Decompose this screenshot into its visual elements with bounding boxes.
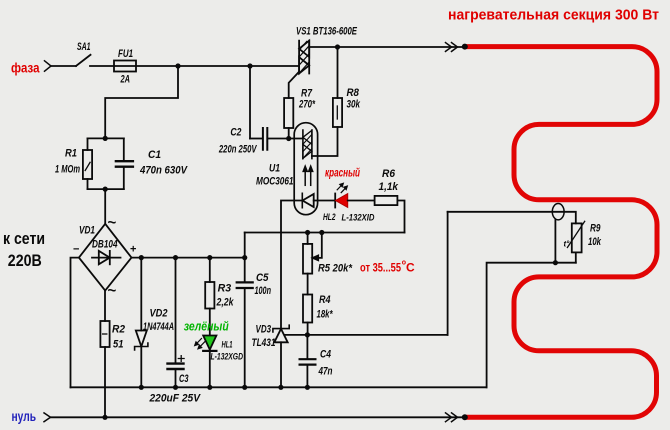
- optocoupler U1 light arrows: [303, 166, 313, 185]
- capacitor C4: [300, 335, 316, 387]
- svg-text:R1: R1: [65, 148, 77, 160]
- zener diode VD2: [135, 258, 148, 388]
- svg-text:220В: 220В: [8, 252, 42, 270]
- wire sensor top riser: [447, 212, 449, 335]
- resistor R6: [375, 196, 405, 233]
- svg-text:C5: C5: [256, 272, 269, 284]
- thermistor R9: [567, 221, 584, 262]
- node heater terminal top chevrons: [446, 43, 458, 52]
- svg-text:нуль: нуль: [12, 408, 37, 424]
- node heater terminal bottom chevrons: [446, 413, 458, 422]
- svg-text:нагревательная секция 300 Вт: нагревательная секция 300 Вт: [448, 7, 659, 24]
- wire bridge minus to ground rail: [71, 258, 79, 388]
- wire phase input to switch: [51, 65, 76, 67]
- node R1C1 bottom: [88, 189, 124, 224]
- svg-text:VD3: VD3: [256, 324, 272, 336]
- svg-text:100n: 100n: [255, 285, 272, 297]
- optocoupler U1 LED: [302, 193, 335, 207]
- svg-text:+: +: [130, 244, 136, 256]
- resistor R2: [100, 321, 109, 417]
- svg-text:1,1k: 1,1k: [379, 181, 399, 193]
- svg-text:2,2k: 2,2k: [216, 297, 234, 309]
- LED HL1 green: [203, 336, 216, 388]
- wire opto LED to TL431: [281, 201, 302, 329]
- svg-text:t°: t°: [564, 240, 571, 249]
- svg-text:2A: 2A: [120, 74, 130, 86]
- svg-text:фаза: фаза: [11, 60, 40, 76]
- svg-text:47n: 47n: [318, 366, 333, 378]
- svg-text:C3: C3: [179, 373, 189, 385]
- LED HL2 emission arrows: [337, 183, 347, 192]
- resistor R1: [83, 138, 92, 189]
- svg-text:C4: C4: [320, 349, 331, 361]
- svg-text:к сети: к сети: [3, 230, 45, 248]
- svg-text:VD1: VD1: [79, 225, 95, 237]
- resistor R8: [312, 47, 342, 156]
- svg-text:VS1 BT136-600E: VS1 BT136-600E: [296, 26, 357, 38]
- wire switch to fuse: [90, 65, 299, 67]
- svg-text:MOC3061: MOC3061: [256, 176, 294, 188]
- svg-text:зелёный: зелёный: [184, 320, 229, 334]
- switch SA1: [76, 55, 91, 66]
- svg-text:51: 51: [113, 339, 124, 351]
- svg-text:1N4744A: 1N4744A: [143, 321, 174, 333]
- svg-text:HL1: HL1: [222, 340, 233, 351]
- svg-text:R8: R8: [347, 87, 360, 99]
- potentiometer R5: [303, 233, 312, 295]
- svg-text:С: С: [406, 261, 415, 275]
- svg-text:270*: 270*: [298, 99, 315, 111]
- node нуль input terminal: [44, 413, 51, 422]
- svg-text:L-132XGD: L-132XGD: [211, 352, 244, 363]
- svg-text:VD2: VD2: [150, 308, 168, 320]
- svg-text:L-132XID: L-132XID: [342, 213, 375, 224]
- resistor R3: [205, 258, 214, 336]
- node фаза input terminal: [45, 61, 52, 71]
- triac VS1: [299, 41, 309, 74]
- svg-text:SA1: SA1: [77, 41, 91, 53]
- svg-text:R4: R4: [319, 294, 331, 306]
- wire triac output: [309, 46, 462, 48]
- svg-text:R3: R3: [218, 283, 232, 295]
- svg-text:220uF 25V: 220uF 25V: [149, 393, 202, 405]
- svg-text:DB104: DB104: [92, 239, 118, 251]
- node R1C1 top: [88, 137, 124, 139]
- fuse FU1: [114, 61, 136, 72]
- capacitor C3 polarized: [168, 258, 185, 388]
- svg-text:TL431: TL431: [252, 337, 276, 349]
- ground rail: [71, 386, 487, 388]
- LED HL1 emission arrows: [195, 339, 205, 349]
- svg-text:HL2: HL2: [323, 212, 336, 223]
- LED HL2 red: [335, 194, 374, 208]
- svg-text:R5 20k*: R5 20k*: [318, 263, 353, 275]
- terminal grommet ellipse: [552, 204, 564, 263]
- svg-text:C2: C2: [230, 127, 241, 139]
- svg-text:U1: U1: [269, 163, 280, 175]
- bridge rectifier VD1: [79, 224, 132, 291]
- wire jog from phase line down to R1C1: [105, 66, 178, 138]
- wire neutral: [51, 416, 465, 418]
- positive supply bus from bridge: [132, 257, 245, 259]
- svg-text:R9: R9: [590, 223, 601, 235]
- svg-text:220n 250V: 220n 250V: [218, 143, 257, 155]
- wire TL431 ref line: [285, 334, 448, 336]
- heating element 300W serpentine: [466, 47, 657, 418]
- optocoupler U1 body: [294, 123, 317, 215]
- svg-text:30k: 30k: [347, 99, 361, 111]
- wire +V top line: [245, 232, 405, 234]
- svg-text:−: −: [73, 244, 79, 256]
- capacitor C1: [116, 138, 133, 189]
- svg-text:18k*: 18k*: [317, 309, 334, 321]
- potentiometer R5 wiper: [313, 233, 322, 261]
- wire bridge bottom to R2: [104, 291, 106, 322]
- wire triac gate to R7: [289, 72, 299, 98]
- svg-text:R6: R6: [382, 168, 396, 180]
- svg-text:R2: R2: [112, 324, 125, 336]
- svg-text:от 35...55: от 35...55: [360, 261, 401, 275]
- wire sensor top: [448, 212, 576, 224]
- svg-text:~: ~: [108, 215, 117, 232]
- wire sensor bottom: [487, 263, 576, 388]
- svg-text:FU1: FU1: [118, 48, 133, 60]
- resistor R7: [284, 98, 293, 139]
- shunt regulator VD3 TL431: [273, 325, 289, 387]
- svg-text:1 MOm: 1 MOm: [55, 164, 80, 176]
- resistor R4: [303, 295, 312, 335]
- optocoupler U1 triac: [303, 130, 312, 159]
- capacitor C2: [250, 66, 303, 150]
- svg-text:красный: красный: [325, 166, 360, 180]
- svg-text:470n 630V: 470n 630V: [139, 165, 188, 177]
- svg-text:10k: 10k: [588, 236, 602, 248]
- svg-text:C1: C1: [148, 149, 161, 161]
- capacitor C5: [237, 233, 253, 388]
- svg-text:~: ~: [108, 283, 117, 300]
